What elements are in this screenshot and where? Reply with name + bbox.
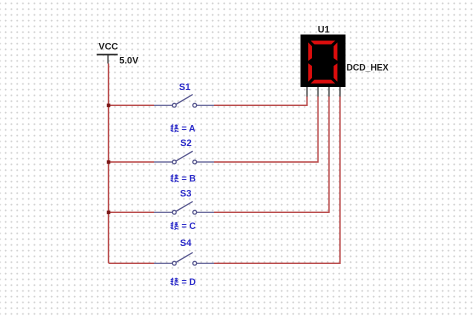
svg-text:S3: S3 [180,188,191,198]
switch S4 key label 键 = D [171,277,197,287]
switch S1 [154,95,214,108]
switch S2 [154,151,214,164]
wire: row2 right segment (S2 to display pin 2) [214,96,318,162]
svg-text:= C: = C [182,221,197,231]
svg-text:S2: S2 [180,138,191,148]
display pin 3 stub [328,87,330,97]
svg-text:S4: S4 [180,238,192,248]
wire: VCC vertical bus x=108.5 from stub to row4 corner [108,64,110,264]
svg-text:= B: = B [182,173,197,183]
svg-text:= D: = D [182,277,197,287]
switch S1 key label 键 = A [171,123,196,133]
switch S3 [154,202,214,215]
wire: row1 right segment (S1 to display pin 1) [214,96,307,105]
svg-text:DCD_HEX: DCD_HEX [347,62,389,72]
switch S4 [154,252,214,265]
seven-segment display U1 body [301,35,346,88]
wire: row3 left segment (bus to S3) [109,211,155,213]
display pin 1 stub [306,87,308,97]
switch S2 key label 键 = B [171,173,197,183]
svg-text:5.0V: 5.0V [119,56,139,66]
display pin 2 stub [317,87,319,97]
svg-text:S1: S1 [179,82,190,92]
wire: row1 left segment (bus to S1) [109,104,155,106]
wire: row4 right segment (S4 to display pin 4) [214,96,340,263]
display pin 4 stub [339,87,341,97]
wire: row3 right segment (S3 to display pin 3) [214,96,329,212]
svg-text:U1: U1 [318,24,330,34]
power VCC [97,42,119,64]
display U1 lit segments (digit 0) [308,41,337,84]
wire: row4 segment (bus corner to S4 and display pin 4) [109,262,155,264]
switch S3 key label 键 = C [171,221,197,231]
node junction row2 [107,160,111,164]
svg-text:= A: = A [182,123,196,133]
svg-text:VCC: VCC [99,42,119,52]
wire: row2 left segment (bus to S2) [109,161,155,163]
node junction row1 [107,104,111,108]
node junction row3 [107,211,111,215]
